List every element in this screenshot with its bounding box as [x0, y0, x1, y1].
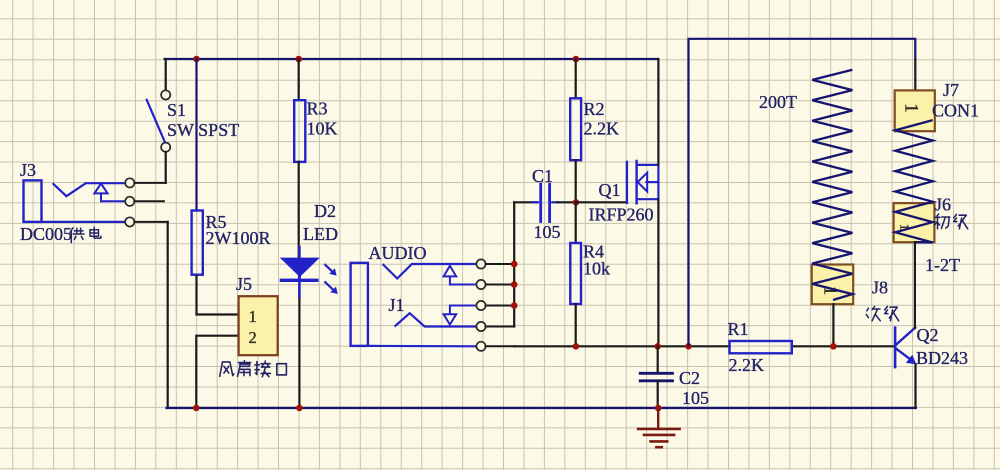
connector J5 box — [239, 296, 278, 355]
pin J1-4 — [476, 322, 514, 331]
svg-text:1: 1 — [901, 103, 922, 113]
junction top rail R2 — [573, 56, 580, 63]
wire collector — [914, 242, 916, 328]
label 200T — [759, 92, 797, 112]
transistor Q1 — [627, 161, 659, 203]
wire drain — [657, 59, 659, 165]
svg-text:J5: J5 — [236, 274, 252, 294]
svg-text:J3: J3 — [20, 160, 36, 180]
junction source rail — [654, 343, 661, 350]
junction top rail R5 — [193, 56, 200, 63]
resistor R3 — [294, 100, 305, 162]
wire D2 to bottom — [298, 282, 300, 408]
svg-text:C2: C2 — [679, 368, 700, 388]
wire J8 down — [832, 304, 834, 346]
connector J3 switched-pin arrow — [94, 184, 125, 202]
wire loop — [689, 39, 916, 347]
label J6 — [935, 195, 968, 229]
label Q2 — [916, 325, 968, 368]
svg-text:BD243: BD243 — [916, 348, 968, 368]
jack J1 tip contact — [383, 264, 477, 279]
wire signal rail — [514, 345, 729, 347]
label J1 — [389, 295, 405, 315]
wire R2 to gate node — [575, 160, 577, 202]
junction R4 rail — [573, 343, 580, 350]
wire C2 to bottom — [657, 381, 659, 408]
svg-text:200T: 200T — [759, 92, 797, 112]
label R4 — [583, 242, 610, 279]
svg-text:DC005: DC005 — [20, 224, 72, 244]
LED arrows — [324, 264, 337, 294]
resistor R5 — [192, 211, 203, 275]
wire J5 pin2 to bottom — [196, 336, 238, 408]
wire J1 bus vertical — [513, 202, 515, 326]
resistor R1 — [730, 341, 792, 353]
wire C1 to gate node — [558, 201, 576, 203]
svg-text:2.2K: 2.2K — [584, 119, 620, 139]
pin label 2 J5 — [249, 328, 257, 347]
switch S1 — [147, 90, 171, 151]
wire source — [657, 199, 659, 346]
connector J7 — [895, 90, 935, 131]
label 1-2T — [925, 255, 960, 275]
wire emitter — [914, 364, 916, 408]
resistor R4 — [570, 243, 581, 304]
winding 200T — [812, 70, 852, 300]
wire rail to C2 — [657, 346, 659, 373]
pin J1-5 — [476, 342, 514, 351]
connector J6 — [894, 203, 935, 242]
connector J8 — [812, 265, 854, 305]
svg-text:2.2K: 2.2K — [729, 355, 765, 375]
svg-text:S1: S1 — [167, 100, 186, 120]
wire to C1 — [514, 201, 537, 203]
label Q1 — [589, 180, 654, 225]
svg-text:R2: R2 — [584, 99, 605, 119]
svg-text:105: 105 — [534, 222, 561, 242]
junction J1-3 — [511, 302, 518, 309]
capacitor C2 — [640, 373, 672, 381]
svg-text:J6: J6 — [935, 195, 951, 215]
svg-text:C1: C1 — [532, 166, 553, 186]
wire R4 to rail — [575, 304, 577, 346]
svg-text:LED: LED — [303, 224, 338, 244]
label J3 — [20, 160, 36, 180]
ground — [638, 408, 680, 447]
svg-text:2W100R: 2W100R — [206, 228, 271, 248]
svg-text:Q2: Q2 — [917, 325, 939, 345]
svg-text:2: 2 — [249, 328, 257, 347]
wire bottom rail — [167, 407, 916, 409]
wire rail to R2 — [575, 59, 577, 98]
wire rail to R5 — [195, 59, 197, 211]
capacitor C1 — [533, 184, 558, 221]
winding primary — [895, 120, 932, 242]
transistor Q2 — [895, 328, 916, 367]
pin J1-2 — [476, 280, 514, 289]
label DC005 gongdian — [20, 224, 101, 244]
diode D2 LED — [280, 258, 319, 282]
wire rail to R3 — [298, 59, 300, 100]
svg-text:Q1: Q1 — [599, 180, 621, 200]
junction J1-1 — [511, 261, 518, 268]
svg-text:J7: J7 — [943, 80, 959, 100]
svg-text:1-2T: 1-2T — [925, 255, 960, 275]
resistor R2 — [570, 98, 581, 160]
svg-text:R3: R3 — [307, 99, 328, 119]
svg-text:AUDIO: AUDIO — [369, 243, 427, 263]
label J7 — [932, 80, 979, 121]
label C1 — [532, 166, 561, 242]
junction bottom J5 — [193, 405, 200, 412]
wire loop to J7 — [914, 60, 916, 90]
svg-text:D2: D2 — [314, 201, 336, 221]
label fan interface — [220, 361, 287, 377]
label J8 — [866, 278, 898, 321]
svg-text:1: 1 — [249, 307, 257, 326]
jack J1 switch arrow down — [444, 306, 477, 325]
wire gate node to R4 — [575, 202, 577, 243]
junction gate node — [573, 199, 580, 206]
svg-text:SW SPST: SW SPST — [167, 120, 239, 140]
junction top rail R3 — [295, 56, 302, 63]
junction J8 rail — [830, 343, 837, 350]
label R2 — [584, 99, 620, 139]
svg-text:J1: J1 — [389, 295, 405, 315]
svg-text:10k: 10k — [583, 259, 610, 279]
wire J3 pin3 down — [167, 222, 169, 408]
label AUDIO — [369, 243, 427, 263]
svg-text:10K: 10K — [307, 119, 338, 139]
pin J3-1 — [125, 178, 165, 187]
wire gate — [576, 201, 627, 203]
svg-text:CON1: CON1 — [932, 101, 979, 121]
label S1 — [167, 100, 239, 140]
label R3 — [307, 99, 338, 139]
junction J1-2 — [511, 281, 518, 288]
label R1 — [728, 319, 765, 375]
label R5 — [206, 212, 271, 248]
junction bottom D2 — [296, 405, 303, 412]
jack J1 ring contact — [395, 313, 477, 326]
wire R3 to D2 — [298, 162, 300, 258]
pin J1-3 — [476, 301, 514, 310]
svg-text:R1: R1 — [728, 319, 749, 339]
svg-text:J8: J8 — [872, 278, 888, 298]
junction C2 bottom — [655, 405, 662, 412]
junction loop rail — [685, 343, 692, 350]
label D2 — [303, 201, 338, 244]
wire top VCC rail — [165, 58, 659, 60]
wire rail to S1 — [165, 59, 167, 90]
svg-text:105: 105 — [682, 388, 709, 408]
pin label 1 J5 — [249, 307, 257, 326]
wire D2 leads blue — [298, 247, 301, 297]
connector J1 body — [351, 263, 477, 346]
jack J1 switch arrow up — [444, 266, 477, 285]
connector J3 body — [24, 180, 126, 222]
pin J3-2 — [125, 197, 164, 206]
wire signal rail right — [792, 345, 894, 347]
svg-text:IRFP260: IRFP260 — [589, 205, 654, 225]
label J5 — [236, 274, 252, 294]
label C2 — [679, 368, 709, 408]
pin J1-1 — [476, 259, 514, 268]
wire S1 to J3 pin1 — [165, 152, 167, 183]
wire R5 to J5 pin1 — [197, 275, 239, 315]
pin J3-3 — [125, 217, 167, 226]
